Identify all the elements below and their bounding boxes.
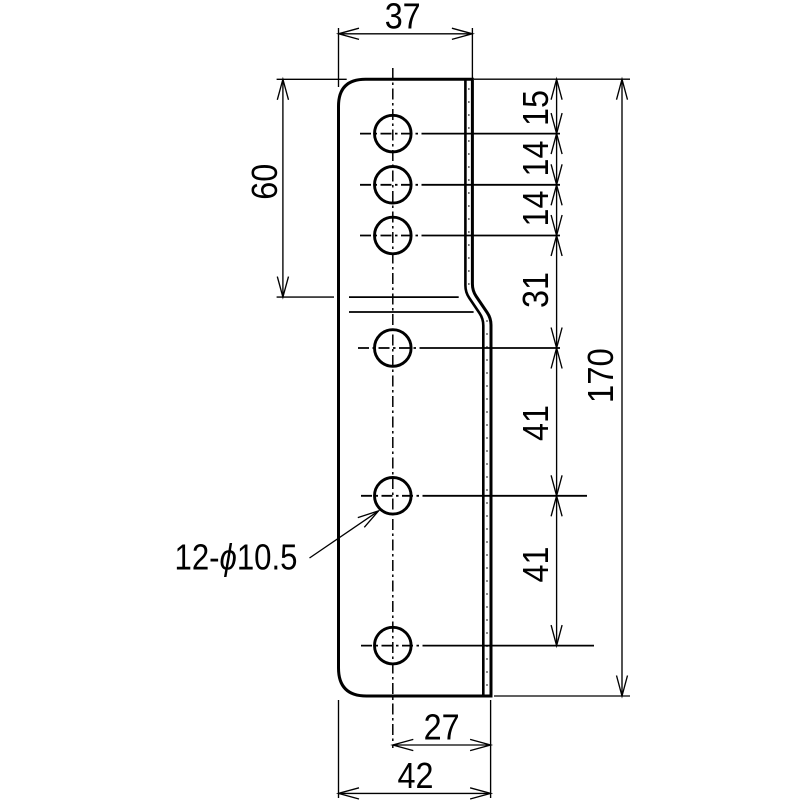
hole 2 — [375, 167, 412, 204]
bend center dash line lower — [486, 320, 488, 692]
plate inner bend line (sheet thickness) — [465, 79, 483, 696]
dim 42 right extension — [490, 700, 492, 798]
leader arrowhead — [358, 511, 379, 527]
svg-text:41: 41 — [515, 547, 556, 583]
bend center dash line upper — [468, 88, 470, 286]
hole 3 centerline — [360, 235, 427, 237]
hole 3 — [375, 217, 412, 254]
dim 37 arrow right — [452, 28, 473, 39]
svg-text:14: 14 — [515, 191, 556, 227]
hole 6 extension line — [427, 645, 594, 647]
hole 5 — [375, 478, 412, 515]
dim 27 arrow right — [470, 739, 491, 750]
svg-text:15: 15 — [515, 90, 556, 126]
svg-text:41: 41 — [515, 405, 556, 441]
dim 37 arrow left — [339, 28, 360, 39]
hole 5 extension line — [427, 495, 587, 497]
chain crossing arrows at hole2 — [551, 164, 562, 185]
svg-text:37: 37 — [385, 0, 421, 36]
chain crossing arrows at hole5 — [551, 475, 562, 496]
svg-text:170: 170 — [580, 348, 621, 403]
dim 170 line — [621, 79, 623, 696]
svg-text:27: 27 — [424, 706, 460, 747]
dim 27 line — [393, 744, 491, 746]
chain crossing arrows at hole3 — [551, 215, 562, 236]
dim 170 arrow top — [617, 79, 628, 100]
chain crossing arrows at hole1 — [551, 113, 562, 134]
hole 2 centerline — [360, 184, 427, 186]
dim 170 arrow bottom — [617, 676, 628, 697]
top edge extension to right — [474, 78, 630, 80]
hole 6 centerline — [361, 645, 427, 647]
vertical centerline — [392, 68, 394, 748]
dim 60 arrow bottom — [277, 277, 288, 298]
svg-text:14: 14 — [515, 141, 556, 177]
leader line — [310, 511, 379, 558]
svg-text:42: 42 — [398, 755, 434, 796]
dim 27 arrow left — [393, 739, 414, 750]
dim 60 extension top — [277, 78, 347, 80]
hole 1 extension line — [427, 133, 560, 135]
dim 60 extension bottom — [277, 296, 334, 298]
joggle bend line upper — [349, 296, 459, 298]
svg-text:12-ϕ10.5: 12-ϕ10.5 — [175, 536, 298, 577]
hole 5 centerline — [361, 495, 427, 497]
dim 42 line — [339, 792, 491, 794]
dim 42 arrow left — [339, 788, 360, 799]
hole 4 extension line — [427, 347, 560, 349]
bottom edge extension to right — [494, 695, 630, 697]
dim 37 line — [339, 33, 473, 35]
chain arrow up at top — [551, 79, 562, 100]
hole 6 — [375, 627, 412, 664]
dim 60 arrow top — [277, 79, 288, 100]
svg-text:31: 31 — [515, 272, 556, 308]
dim 42 arrow right — [470, 788, 491, 799]
hole 4 — [375, 330, 412, 367]
hole 4 centerline — [358, 347, 427, 349]
dim 37 extension left — [338, 28, 340, 87]
dim 60 line — [282, 79, 284, 297]
joggle bend line lower — [349, 311, 474, 313]
hole 2 extension line — [427, 184, 560, 186]
plate outline outer — [339, 79, 492, 696]
svg-text:60: 60 — [244, 164, 285, 200]
dim 37 extension right — [471, 28, 473, 80]
hole 1 centerline — [360, 133, 427, 135]
chain crossing arrows at hole4 — [551, 328, 562, 349]
hole 3 extension line — [427, 235, 560, 237]
dim 42 left extension — [338, 700, 340, 798]
chain arrow down at hole6 — [551, 625, 562, 646]
chain dimension line — [556, 79, 558, 645]
hole 1 — [375, 115, 412, 152]
